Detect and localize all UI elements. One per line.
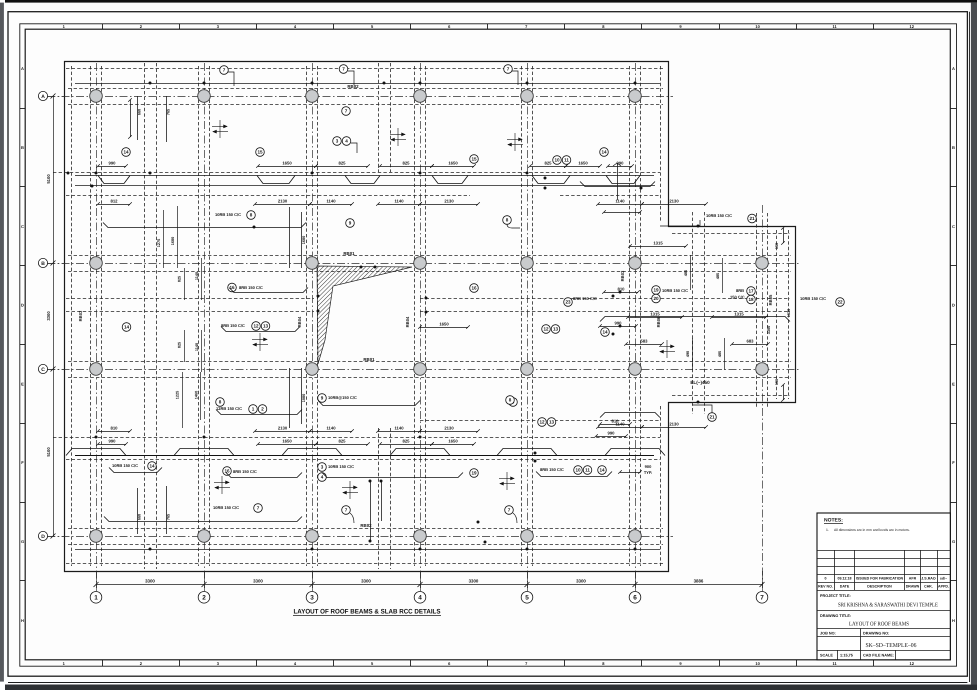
bar marks 12 13 mid right	[542, 325, 551, 334]
svg-text:485: 485	[684, 270, 688, 276]
svg-text:13: 13	[263, 324, 269, 329]
svg-text:825: 825	[178, 276, 182, 282]
svg-text:21: 21	[709, 415, 715, 420]
dim 2130 band3 a	[253, 425, 312, 432]
dim 1650 top b	[430, 160, 476, 167]
svg-text:8RB 150 C/C: 8RB 150 C/C	[573, 296, 597, 301]
label 10RB bot mid	[318, 463, 327, 472]
svg-text:12: 12	[910, 24, 915, 29]
bar marks 10 11 top right	[553, 156, 562, 165]
svg-text:8: 8	[250, 213, 253, 218]
svg-text:REV NO.: REV NO.	[818, 585, 833, 589]
dim 1140 band2 a	[308, 198, 354, 205]
slab bar under 9 label	[318, 401, 420, 406]
svg-text:1140: 1140	[394, 198, 404, 203]
column A3	[306, 90, 319, 103]
svg-text:16: 16	[229, 285, 235, 290]
column A6	[629, 90, 642, 103]
svg-text:8: 8	[509, 398, 512, 403]
dim 1315 ext c	[710, 311, 768, 318]
svg-text:10: 10	[575, 468, 581, 473]
vbar 990 right	[617, 163, 619, 200]
svg-text:7: 7	[507, 67, 510, 72]
svg-text:1680: 1680	[171, 237, 175, 245]
svg-text:1.: 1.	[826, 528, 829, 532]
flip symbol ext	[659, 340, 675, 358]
svg-text:E: E	[952, 381, 955, 386]
svg-text:9: 9	[349, 221, 352, 226]
svg-text:RB03: RB03	[620, 270, 625, 281]
dim 900 typ line	[618, 470, 642, 474]
svg-text:8: 8	[219, 400, 222, 405]
bar mark 16 mid right	[470, 284, 479, 293]
grid bubble 1	[90, 592, 102, 604]
bar mark 8 mid b	[509, 398, 518, 407]
svg-text:15: 15	[471, 157, 477, 162]
svg-text:0: 0	[825, 577, 827, 581]
svg-text:10RB@150 C/C: 10RB@150 C/C	[328, 395, 357, 400]
column D1	[90, 530, 103, 543]
dim 1140 band3 r	[596, 421, 644, 428]
extension bottom inner dashed	[672, 395, 790, 397]
dim 1140 band3 a	[308, 425, 354, 432]
callout 7 bot right	[505, 506, 514, 515]
svg-text:SCALE: SCALE	[820, 654, 833, 658]
dim 1140 band2 b	[376, 198, 422, 205]
svg-text:SK–SD–TEMPLE–06: SK–SD–TEMPLE–06	[866, 643, 917, 649]
beam on grid 3	[307, 66, 318, 566]
column A2	[198, 90, 211, 103]
ext mid bar	[600, 317, 790, 322]
bar mark 8 mid a	[216, 398, 225, 407]
svg-text:11: 11	[585, 468, 590, 473]
column A5	[521, 90, 534, 103]
vbar 660	[137, 96, 139, 140]
svg-text:2130: 2130	[278, 198, 288, 203]
svg-text:10RB 150 C/C: 10RB 150 C/C	[213, 505, 239, 510]
svg-text:1: 1	[94, 595, 98, 602]
top band dashed bar 2	[66, 195, 470, 197]
svg-text:All dimensions are in mm and l: All dimensions are in mm and levels are …	[834, 528, 910, 532]
svg-text:10RB 150 C/C: 10RB 150 C/C	[112, 463, 138, 468]
right edge inner dashed	[660, 66, 662, 222]
beam on grid B	[68, 256, 791, 272]
svg-text:DRAWING TITLE:: DRAWING TITLE:	[820, 614, 851, 618]
left dimension line	[48, 94, 65, 539]
svg-text:16: 16	[471, 286, 477, 291]
svg-text:DRAWING NO:: DRAWING NO:	[863, 632, 889, 636]
svg-text:19: 19	[653, 288, 659, 293]
svg-text:C: C	[21, 224, 24, 229]
svg-text:1650: 1650	[439, 321, 449, 326]
svg-text:1315: 1315	[734, 311, 744, 316]
dim 810 band3 l	[96, 425, 132, 432]
svg-text:RB01: RB01	[343, 251, 355, 256]
svg-text:3: 3	[321, 465, 324, 470]
intermediate beam y305 left	[66, 299, 314, 312]
svg-text:ISSUED FOR FABRICATION: ISSUED FOR FABRICATION	[856, 577, 904, 581]
svg-text:10RB 150 C/C: 10RB 150 C/C	[800, 296, 826, 301]
svg-text:5100: 5100	[46, 447, 51, 457]
page edge line right	[969, 12, 971, 682]
svg-text:3: 3	[310, 595, 314, 602]
intermediate beam x384 bottom	[379, 428, 391, 569]
dim 1650 top	[256, 160, 318, 167]
svg-text:J.S.RAO: J.S.RAO	[921, 577, 936, 581]
svg-text:D: D	[21, 303, 24, 308]
bottom edge bar	[5, 685, 977, 690]
svg-text:10RB 150 C/C: 10RB 150 C/C	[662, 288, 688, 293]
dim 990 top right	[606, 160, 634, 167]
svg-text:7: 7	[257, 506, 260, 511]
flip symbol c	[507, 133, 523, 151]
grid bubble A	[38, 91, 47, 100]
ext top leader	[660, 220, 700, 226]
svg-text:900: 900	[645, 464, 652, 469]
svg-text:13: 13	[549, 420, 555, 425]
svg-text:JOB NO:: JOB NO:	[820, 632, 836, 636]
intermediate beam x150	[145, 63, 157, 569]
svg-text:12: 12	[910, 661, 915, 666]
slab outline	[65, 62, 796, 572]
svg-text:1080: 1080	[302, 394, 306, 402]
svg-text:A: A	[952, 66, 955, 71]
svg-text:AFR: AFR	[909, 577, 917, 581]
svg-text:B: B	[41, 261, 45, 267]
svg-text:1650: 1650	[578, 160, 588, 165]
dim 810 bot right	[598, 418, 632, 425]
svg-text:583: 583	[641, 338, 649, 343]
grid bubble D	[38, 531, 47, 540]
svg-text:4: 4	[321, 475, 324, 480]
beam on grid 4	[415, 66, 426, 566]
grid line 4 centerline	[420, 63, 422, 588]
svg-text:3: 3	[336, 139, 339, 144]
svg-text:10: 10	[755, 661, 760, 666]
svg-text:TYP.: TYP.	[644, 470, 652, 475]
svg-text:1225: 1225	[176, 391, 180, 399]
svg-text:3300: 3300	[767, 326, 771, 334]
svg-text:DESCRIPTION: DESCRIPTION	[867, 585, 892, 589]
column C7	[756, 363, 769, 376]
bar mark 15 top	[256, 148, 265, 157]
slab bar under 10 11 label bot	[536, 472, 612, 477]
slab bar top right 990	[580, 182, 655, 187]
svg-text:2130: 2130	[278, 425, 288, 430]
grid line B centerline	[47, 263, 800, 265]
intermediate beam x698 extension	[693, 212, 705, 414]
dim 825 band4 a	[314, 438, 370, 445]
rb02 vertical bars	[370, 481, 372, 541]
bottom band dashed bar 1	[53, 437, 660, 439]
dim 1315 ext b	[626, 311, 684, 318]
bottom dimension line	[94, 571, 765, 591]
bar mark 8 bot right	[506, 396, 515, 405]
dim 1650 band4 b	[430, 438, 476, 445]
svg-text:1460: 1460	[195, 391, 199, 399]
grid bubble 6	[629, 592, 641, 604]
flip symbol mid	[252, 333, 268, 351]
flip symbol bot a	[214, 476, 230, 494]
column A1	[90, 90, 103, 103]
svg-text:G: G	[21, 539, 24, 544]
slab bar under 16 label	[229, 288, 308, 293]
svg-text:8: 8	[506, 218, 509, 223]
intermediate beam y305 right	[420, 299, 790, 312]
svg-text:14: 14	[124, 325, 130, 330]
svg-text:H: H	[952, 618, 955, 623]
svg-text:150: 150	[775, 243, 779, 249]
top band dashed bar 1	[53, 172, 660, 174]
svg-text:20: 20	[653, 296, 659, 301]
grid line 1 centerline	[96, 63, 98, 588]
grid bubble 3	[306, 592, 318, 604]
svg-text:14: 14	[149, 464, 155, 469]
column B7	[756, 257, 769, 270]
dim 990 bot right	[594, 430, 628, 437]
svg-text:A: A	[41, 94, 45, 100]
grid bubble C	[38, 364, 47, 373]
svg-text:CHK.: CHK.	[924, 585, 933, 589]
dim 2130 band3 r	[640, 421, 708, 428]
svg-text:7: 7	[342, 67, 345, 72]
svg-text:12: 12	[539, 420, 545, 425]
svg-text:12RB 150 C/C: 12RB 150 C/C	[216, 406, 242, 411]
svg-text:LAYOUT OF ROOF BEAMS & SL: LAYOUT OF ROOF BEAMS & SLAB RCC DETAILS	[294, 609, 442, 616]
svg-text:485: 485	[718, 351, 722, 357]
title block	[817, 513, 950, 660]
column D5	[521, 530, 534, 543]
grid bubble 5	[521, 592, 533, 604]
svg-text:3300: 3300	[46, 311, 51, 321]
ext bottom bar	[600, 413, 660, 418]
svg-text:1140: 1140	[195, 272, 199, 280]
column B6	[629, 257, 642, 270]
vbar 765 bot	[166, 486, 168, 534]
column C6	[629, 363, 642, 376]
grid bubble B	[38, 258, 47, 267]
column D2	[198, 530, 211, 543]
dim 1650 band4 a	[256, 438, 318, 445]
svg-text:C: C	[41, 367, 45, 373]
svg-text:3300: 3300	[145, 578, 155, 583]
left edge bar	[0, 3, 4, 682]
svg-text:765: 765	[167, 109, 171, 115]
bottom chord bar	[75, 549, 660, 551]
svg-text:3300: 3300	[253, 578, 263, 583]
svg-text:825: 825	[403, 438, 411, 443]
svg-text:10: 10	[755, 24, 760, 29]
column C4	[414, 363, 427, 376]
dim 810 band2 r	[602, 210, 642, 214]
column D3	[306, 530, 319, 543]
svg-text:RB04: RB04	[405, 316, 410, 327]
grid line 5 centerline	[527, 63, 529, 588]
svg-text:D: D	[41, 534, 45, 540]
grid line 3 centerline	[312, 63, 314, 588]
callout 7 top a	[220, 66, 229, 75]
svg-text:B: B	[21, 145, 24, 150]
bar mark 19 bot right	[470, 469, 479, 478]
dim 683 ext	[730, 338, 770, 345]
top edge inner dashed	[66, 68, 665, 70]
svg-text:10RB 150 C/C: 10RB 150 C/C	[328, 464, 354, 469]
svg-text:1:15,75: 1:15,75	[840, 654, 853, 658]
grid line 7 centerline	[762, 205, 764, 588]
vbar pair 288 top	[289, 207, 291, 268]
svg-text:PROJECT TITLE:: PROJECT TITLE:	[820, 594, 851, 598]
beam on grid 5	[522, 66, 533, 566]
bottom band dashed bar 0	[420, 420, 660, 422]
column B3	[306, 257, 319, 270]
svg-text:CAD FILE NAME:: CAD FILE NAME:	[863, 654, 894, 658]
svg-text:660: 660	[138, 109, 142, 115]
grid line 6 centerline	[635, 63, 637, 588]
beam on grid D	[68, 529, 663, 545]
dim 990 ext	[598, 320, 638, 327]
svg-text:3300: 3300	[361, 578, 371, 583]
svg-text:16: 16	[224, 469, 230, 474]
svg-text:660: 660	[138, 514, 142, 520]
bar junction dots	[67, 82, 700, 551]
dim 812 band2	[96, 198, 132, 205]
svg-text:1315: 1315	[650, 311, 660, 316]
column B5	[521, 257, 534, 270]
top edge bar	[5, 0, 977, 3]
svg-text:5100: 5100	[46, 174, 51, 184]
dim 583 ext	[624, 338, 664, 345]
svg-text:14: 14	[599, 468, 605, 473]
dim 825 top a	[314, 160, 370, 167]
bottom edge inner dashed	[66, 563, 665, 565]
svg-text:8RB 150 C/C: 8RB 150 C/C	[540, 467, 564, 472]
svg-text:1330: 1330	[787, 309, 791, 317]
dim 2130 band2 b	[418, 198, 480, 205]
dim 825 top right	[528, 160, 568, 167]
svg-text:RB04: RB04	[297, 316, 302, 327]
callout 7 top c	[504, 65, 513, 74]
column B1	[90, 257, 103, 270]
top band dashed bar 2r	[560, 195, 660, 197]
beam on grid 7	[757, 213, 768, 407]
svg-text:2130: 2130	[669, 421, 679, 426]
dim 2130 band3 b	[418, 425, 480, 432]
svg-text:2130: 2130	[444, 198, 454, 203]
bar mark 9 mid	[346, 219, 355, 228]
svg-text:DRAWN: DRAWN	[906, 585, 920, 589]
svg-text:1650: 1650	[282, 160, 292, 165]
svg-text:EL(−)450: EL(−)450	[690, 380, 710, 385]
dim 810 ext	[602, 286, 640, 293]
callout 21 ext bottom	[708, 413, 717, 422]
column B4	[414, 257, 427, 270]
svg-text:1275: 1275	[157, 239, 161, 247]
dim 990 top	[96, 160, 128, 167]
beam on grid C	[68, 362, 791, 378]
svg-text:D: D	[952, 303, 955, 308]
svg-text:21: 21	[749, 216, 755, 221]
top chord bar	[75, 83, 660, 85]
column D4	[414, 530, 427, 543]
svg-text:A: A	[21, 66, 24, 71]
bottom rebar curtailment band	[66, 449, 665, 456]
slab bar under 7 label bot	[104, 517, 302, 522]
svg-text:150 C/C: 150 C/C	[730, 295, 745, 300]
dim 2130 band2 a	[253, 198, 312, 205]
flip symbol bot c	[499, 472, 515, 490]
svg-text:990: 990	[608, 430, 616, 435]
extension edge beam x781	[777, 230, 789, 399]
slab bar under 16 label bot	[226, 473, 302, 478]
svg-text:1650: 1650	[282, 438, 292, 443]
svg-text:3300: 3300	[469, 578, 479, 583]
svg-text:1140: 1140	[195, 343, 199, 351]
svg-text:11: 11	[564, 158, 569, 163]
svg-text:15: 15	[257, 150, 263, 155]
svg-text:sd/–: sd/–	[940, 577, 947, 581]
svg-text:825: 825	[545, 160, 553, 165]
svg-text:C: C	[952, 224, 955, 229]
bar marks 3 4 topmid	[333, 137, 342, 146]
svg-text:B: B	[952, 145, 955, 150]
svg-text:7: 7	[345, 109, 348, 114]
slab bar under 1 2 label	[216, 410, 302, 415]
callout 7 bot mid	[342, 506, 351, 515]
callout 7 below A	[342, 107, 351, 116]
flip symbol b	[390, 128, 406, 146]
svg-text:10: 10	[554, 158, 560, 163]
svg-text:7: 7	[345, 508, 348, 513]
svg-text:5: 5	[525, 595, 529, 602]
bar mark 8 right	[503, 216, 512, 225]
svg-text:18: 18	[748, 297, 754, 302]
svg-text:2130: 2130	[669, 198, 679, 203]
vbar 660 bot	[137, 488, 139, 534]
dim 1315 ext a	[628, 240, 688, 247]
svg-text:2: 2	[202, 595, 206, 602]
svg-text:485: 485	[716, 273, 720, 279]
svg-text:LAYOUT OF ROOF BEAMS: LAYOUT OF ROOF BEAMS	[849, 622, 909, 628]
svg-text:990: 990	[109, 160, 117, 165]
left edge inner dashed	[71, 66, 73, 566]
slab bar under 3 4 label bot	[322, 473, 463, 478]
svg-text:8RB 150 C/C: 8RB 150 C/C	[239, 285, 263, 290]
right edge bar	[971, 3, 977, 685]
flip symbol a	[212, 120, 228, 138]
flip symbol bot b	[342, 481, 358, 499]
svg-text:H: H	[21, 618, 24, 623]
grid bubble 4	[414, 592, 426, 604]
bar line slab8	[103, 223, 306, 228]
svg-text:DATE: DATE	[840, 585, 850, 589]
dim 825 band4 b	[378, 438, 434, 445]
svg-text:23: 23	[565, 300, 571, 305]
beam on grid 2	[199, 66, 210, 566]
svg-text:09.12.18: 09.12.18	[838, 577, 852, 581]
bottom band dashed bar 2	[66, 459, 660, 461]
svg-text:SRI KRISHNA & SARASWATHI DEVI: SRI KRISHNA & SARASWATHI DEVI TEMPLE	[838, 603, 938, 609]
bar mark 14 ext	[601, 328, 610, 337]
slab bar under 14 label bot	[109, 468, 162, 473]
svg-text:4: 4	[345, 139, 348, 144]
svg-text:490: 490	[686, 351, 690, 357]
svg-text:150: 150	[775, 379, 779, 385]
grid line C centerline	[47, 369, 800, 371]
svg-text:990: 990	[109, 438, 117, 443]
svg-text:825: 825	[178, 342, 182, 348]
svg-text:19: 19	[471, 471, 477, 476]
svg-text:810: 810	[618, 286, 626, 291]
